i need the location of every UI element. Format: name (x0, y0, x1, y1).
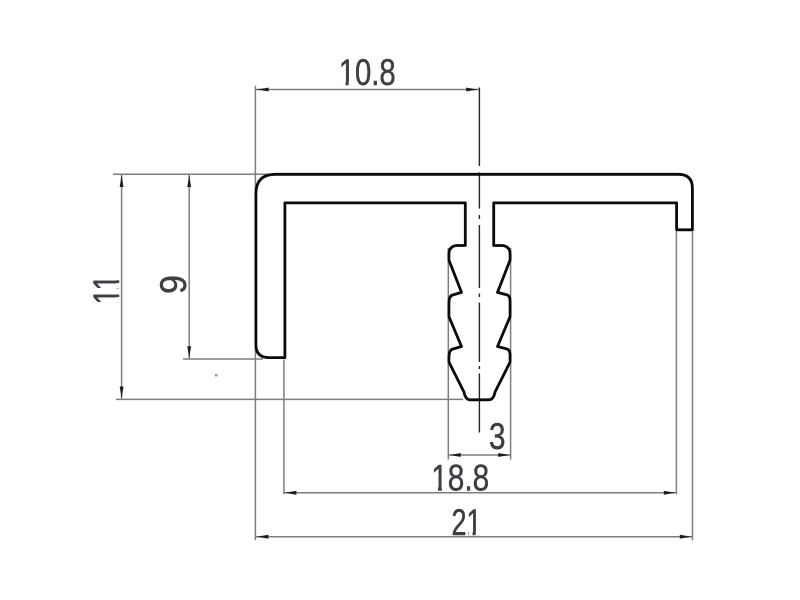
svg-text:18.8: 18.8 (431, 458, 489, 499)
svg-text:9: 9 (153, 275, 194, 294)
svg-text:21: 21 (452, 502, 482, 543)
svg-text:10.8: 10.8 (339, 52, 396, 93)
svg-text:11: 11 (86, 275, 127, 305)
svg-text:3: 3 (489, 416, 506, 457)
